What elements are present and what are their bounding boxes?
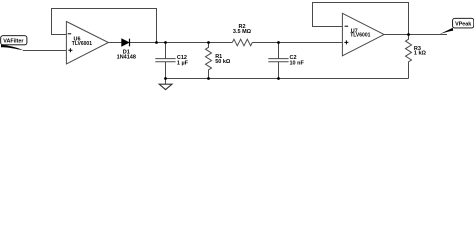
svg-text:10 nF: 10 nF [290,60,305,66]
wire U7 output to VPeak [384,34,447,36]
op-amp U6 triangle [66,22,108,64]
wire U6 output to diode [108,42,121,44]
node C12 bottom / ground [164,77,167,80]
op-amp U6 plus glyph [68,48,72,52]
wire diode to R2 [129,42,232,44]
net flag VPeak [439,18,473,34]
op-amp U7 triangle [342,13,384,56]
svg-text:TLV6001: TLV6001 [72,41,92,47]
wire ground rail [166,78,409,80]
op-amp U6 minus glyph [68,33,72,35]
wire VAFilter to U6 + input [23,50,66,52]
wire R2 to U7 + input [252,42,342,44]
node C2 bottom [277,77,280,80]
diode D1 symbol [122,39,130,47]
svg-text:1 µF: 1 µF [177,60,189,66]
resistor R3 body [406,35,412,79]
svg-text:1N4148: 1N4148 [117,55,136,61]
svg-text:3.5 MΩ: 3.5 MΩ [233,29,252,35]
op-amp U7 minus glyph [345,25,349,27]
svg-text:VPeak: VPeak [455,21,471,27]
node junction diode wire / U6 feedback [155,41,158,44]
resistor R2 body [232,39,252,46]
svg-text:1 kΩ: 1 kΩ [414,51,427,57]
capacitor C2 plates [268,59,288,62]
svg-text:VAFilter: VAFilter [3,38,24,44]
wire U7 feedback loop [313,3,409,35]
node C12 top [164,41,167,44]
capacitor C2 leads [278,43,280,79]
node R1 bottom [207,77,210,80]
node U7 output / feedback / R3 [407,33,410,36]
svg-text:TLV6001: TLV6001 [350,33,370,39]
svg-text:50 kΩ: 50 kΩ [215,59,231,65]
capacitor C12 leads [165,43,167,79]
net flag VAFilter [1,36,27,51]
ground stub [165,79,167,85]
capacitor C12 plates [155,59,175,62]
node R1 top [207,41,210,44]
resistor R1 body [206,43,212,79]
wire U6 feedback loop [52,9,157,43]
op-amp U7 plus glyph [344,40,348,44]
ground symbol [159,84,172,89]
node C2 top [277,41,280,44]
